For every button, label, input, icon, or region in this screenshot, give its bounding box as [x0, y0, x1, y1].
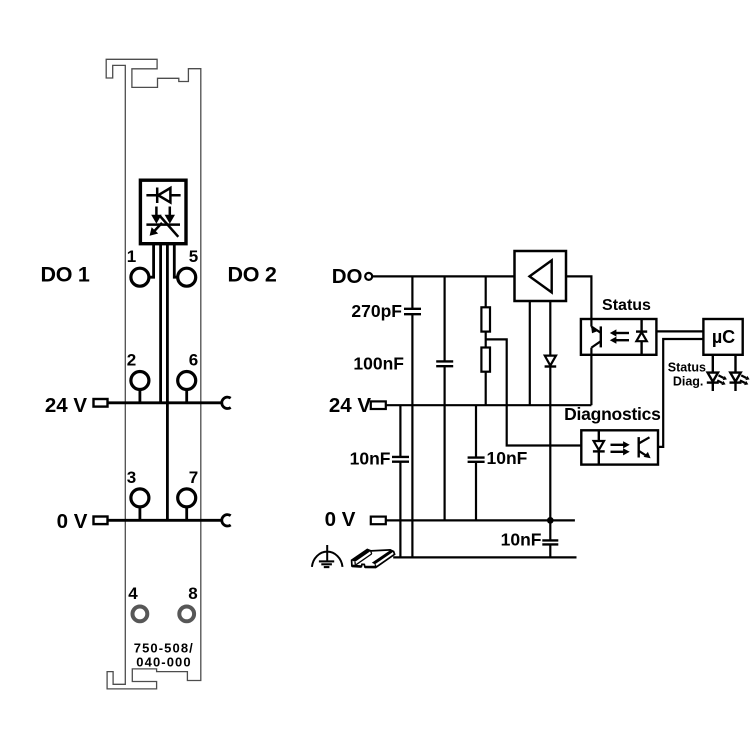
connector symbol 24V (schematic): [371, 401, 386, 409]
DIN rail icon: [352, 549, 395, 567]
diode D1 in suppressor box: [146, 188, 180, 204]
svg-text:270pF: 270pF: [351, 301, 402, 321]
svg-text:5: 5: [189, 247, 198, 266]
connector arc 0V rail (module): [222, 515, 231, 526]
wire status to uC: [656, 330, 703, 332]
terminal 3: [131, 489, 149, 507]
capacitor C2 10nF (24V to earth) wire: [399, 405, 401, 557]
wire C5 to earth line: [549, 544, 551, 557]
svg-text:100nF: 100nF: [353, 354, 404, 374]
wire 0V conductor (suppressor to 0V rail): [166, 244, 169, 521]
svg-text:8: 8: [188, 584, 197, 603]
svg-text:10nF: 10nF: [501, 530, 542, 550]
resistor R2: [481, 348, 490, 372]
svg-text:6: 6: [189, 351, 198, 370]
svg-text:4: 4: [128, 584, 138, 603]
terminal 8: [179, 607, 194, 622]
optocoupler U3 status box: [581, 319, 657, 355]
capacitor C5 10nF plates: [542, 540, 558, 544]
capacitor C3 100nF plates: [436, 361, 453, 366]
transistor Q2 (diag phototransistor): [639, 437, 651, 458]
connector arc 24V rail (module): [222, 397, 231, 408]
wire junction to C5: [549, 520, 551, 540]
terminal 2: [131, 372, 149, 390]
wire terminal 3 stem: [138, 507, 141, 520]
ground symbol: [312, 545, 343, 567]
wire earth line: [393, 556, 576, 558]
diode D2: [545, 356, 557, 367]
capacitor C1 270pF plates: [404, 309, 421, 314]
svg-text:7: 7: [189, 468, 198, 487]
suppressor box U1: [140, 180, 186, 244]
transistor Q1 (status phototransistor): [591, 319, 601, 355]
svg-text:24 V: 24 V: [45, 394, 87, 417]
terminal 6: [178, 372, 196, 390]
svg-text:040-000: 040-000: [136, 655, 191, 670]
diode D4 (diag LED): [593, 430, 605, 464]
wire terminal 7 stem: [185, 507, 188, 520]
svg-text:0 V: 0 V: [57, 510, 88, 533]
optocoupler U4 diagnostics box: [581, 430, 658, 464]
driver U2 box: [515, 251, 567, 301]
resistor R1: [481, 307, 490, 331]
capacitor C4 10nF (24V to 0V) wire: [475, 405, 477, 520]
wire terminal 6 stem: [185, 390, 188, 403]
svg-text:2: 2: [127, 351, 136, 370]
resistor R1 wire top: [485, 276, 487, 307]
wire driver left output to 24V rail: [529, 301, 531, 405]
svg-text:Status: Status: [602, 297, 651, 314]
suppressor symbol arrows: [146, 207, 180, 237]
terminal 1: [131, 268, 149, 286]
svg-text:750-508/: 750-508/: [134, 641, 194, 656]
connector symbol 0V (schematic): [371, 517, 386, 525]
terminal 5: [178, 268, 196, 286]
connector symbol 24V (module): [94, 399, 108, 407]
wire from suppressor to terminal 1: [149, 244, 154, 278]
svg-text:24 V: 24 V: [329, 394, 371, 417]
connector symbol 0V (module): [94, 517, 108, 525]
wire driver right output: [549, 301, 551, 355]
wire from suppressor to terminal 5: [174, 244, 177, 278]
svg-text:1: 1: [127, 247, 136, 266]
diode D3 (status LED): [636, 319, 647, 355]
svg-text:10nF: 10nF: [350, 449, 391, 469]
svg-text:DO 2: DO 2: [228, 263, 277, 287]
light arrows (diagnostics): [611, 441, 630, 455]
wire 0V rail (schematic): [386, 519, 575, 521]
wire terminal 2 stem: [138, 390, 141, 403]
LED1 (status): [707, 373, 719, 391]
svg-text:DO 1: DO 1: [41, 263, 90, 287]
wire R1/R2 junction to diagnostics: [486, 339, 582, 445]
LED2 light arrows: [740, 375, 750, 385]
wire 24V conductor (suppressor to 24V rail): [159, 244, 162, 403]
terminal 4: [133, 607, 148, 622]
capacitor C3 100nF wire: [444, 276, 446, 520]
wire DO line: [372, 275, 514, 277]
wire R2 to 24V rail: [485, 372, 487, 406]
LED1 wire from uC: [712, 355, 714, 373]
capacitor C1 270pF vertical wire: [411, 276, 413, 557]
svg-text:Diag.: Diag.: [673, 375, 704, 389]
wire driver output to status: [566, 276, 591, 319]
svg-text:DO: DO: [332, 265, 363, 288]
svg-text:Status: Status: [668, 361, 706, 375]
light arrows (status): [610, 329, 629, 343]
wire 24V rail (schematic): [386, 404, 592, 406]
junction dot 0V: [547, 517, 554, 524]
wire uC to diagnostics: [658, 339, 703, 447]
terminal 7: [178, 489, 196, 507]
wire between R1 and R2: [485, 332, 487, 348]
svg-text:Diagnostics: Diagnostics: [564, 404, 661, 424]
LED2 wire from uC: [734, 355, 736, 373]
wire status box to 24V rail: [590, 355, 592, 405]
microcontroller U5 box: [703, 319, 742, 355]
svg-text:µC: µC: [712, 327, 735, 347]
svg-text:3: 3: [127, 468, 136, 487]
svg-text:10nF: 10nF: [487, 448, 528, 468]
driver U2 triangle: [530, 260, 552, 292]
capacitor C2 10nF plates: [392, 457, 409, 462]
svg-text:0 V: 0 V: [325, 508, 356, 531]
node DO input: [365, 273, 372, 280]
wire 0V rail (module): [108, 519, 222, 522]
capacitor C4 10nF plates: [468, 458, 485, 462]
wire diode to 0V rail: [549, 367, 551, 521]
LED2 (diag): [730, 373, 742, 391]
module outline: [106, 59, 201, 689]
wire 24V rail (module): [108, 401, 222, 404]
LED1 light arrows: [717, 375, 727, 385]
